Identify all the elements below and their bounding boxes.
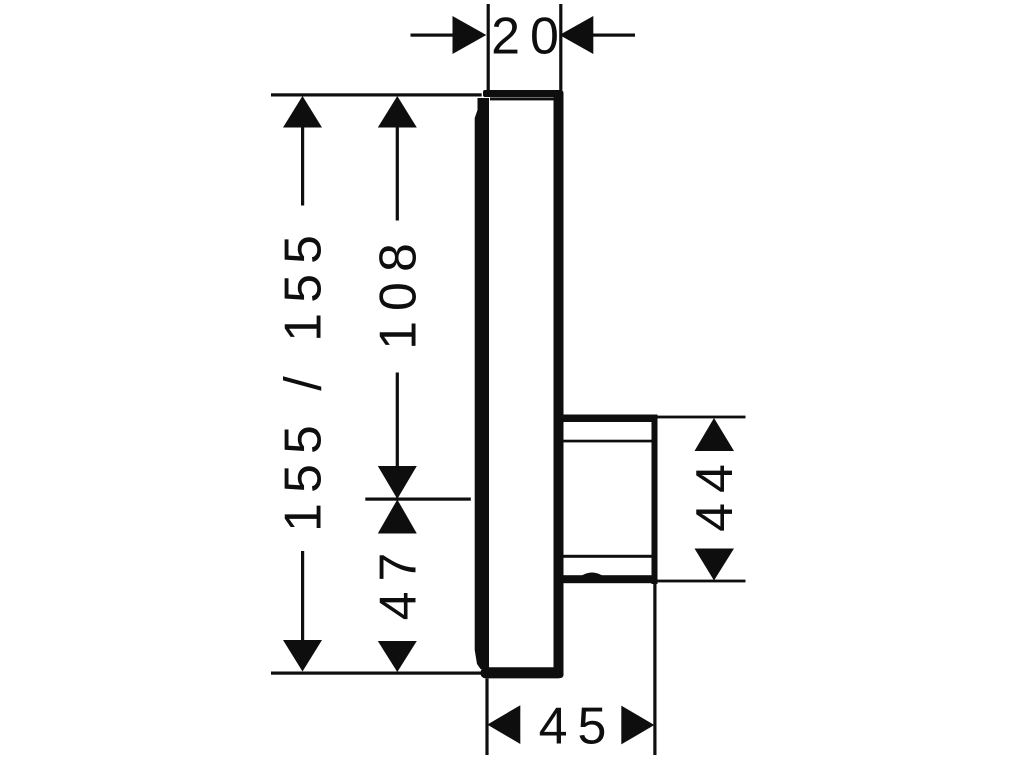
- dim 45 left extension line: [485, 679, 488, 756]
- valve body top edge: [561, 415, 658, 423]
- dim 155 top arrowhead (points up): [283, 96, 322, 128]
- dim 45 right arrowhead (points right): [621, 706, 654, 745]
- dim 20 right dimension line tail: [592, 34, 635, 37]
- valve body inner line lower: [564, 555, 652, 558]
- svg-text:108: 108: [370, 233, 428, 350]
- dim 20 right extension line: [559, 4, 562, 90]
- dim 20 left extension line: [487, 4, 490, 90]
- dim 155 lower dimension line: [301, 551, 304, 640]
- dim 44 bottom extension line: [658, 580, 746, 583]
- dim 20 right arrowhead (points left): [560, 16, 594, 54]
- svg-text:20: 20: [491, 8, 569, 66]
- dim 47 junction arrowhead (points up): [378, 500, 417, 534]
- dim 45 right extension line: [653, 584, 656, 755]
- dim 44 top extension line: [658, 416, 746, 419]
- svg-text:47: 47: [370, 543, 428, 621]
- escutcheon plate inner top line: [490, 97, 556, 100]
- svg-text:44: 44: [686, 454, 744, 532]
- dim 108 upper dimension line: [396, 128, 399, 221]
- svg-text:155 / 155: 155 / 155: [275, 225, 333, 532]
- dim 108 lower dimension line: [396, 373, 399, 467]
- dim 108 top arrowhead (points up): [378, 96, 417, 128]
- dim 155 upper dimension line: [301, 128, 304, 206]
- dim 155 bottom reference line: [271, 672, 481, 675]
- dim 44 bottom arrowhead (points down): [695, 549, 735, 581]
- svg-text:45: 45: [539, 698, 617, 756]
- valve body right edge: [652, 415, 658, 585]
- dim 155 top reference line: [271, 93, 482, 96]
- escutcheon plate top edge: [483, 90, 563, 97]
- dim 47 bottom arrowhead (points down): [378, 641, 417, 672]
- dim 20 left arrowhead (points right): [453, 16, 487, 54]
- valve body bottom edge: [561, 575, 658, 583]
- valve body inner line upper: [564, 440, 652, 443]
- dim 155 bottom arrowhead (points down): [283, 640, 322, 672]
- dim 44 top arrowhead (points up): [695, 418, 735, 451]
- dim 20 left dimension line tail: [411, 34, 455, 37]
- dim 45 left arrowhead (points left): [487, 705, 520, 744]
- escutcheon plate right edge: [554, 90, 564, 678]
- escutcheon plate bottom edge: [481, 667, 564, 678]
- dim 108 junction arrowhead (points down): [378, 466, 417, 499]
- escutcheon plate wall flange (thick left bar): [475, 98, 489, 669]
- dim 108/47 junction tick line: [365, 498, 471, 501]
- valve body break-line bump on bottom edge: [581, 573, 603, 577]
